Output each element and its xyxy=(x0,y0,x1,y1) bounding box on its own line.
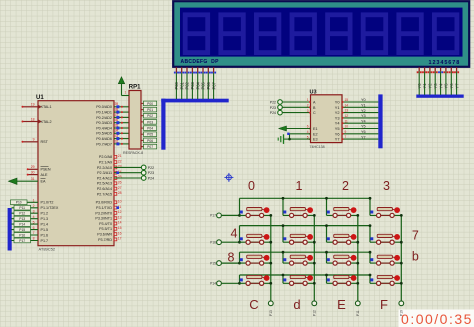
svg-text:2: 2 xyxy=(307,104,309,108)
svg-text:P0.1/AD1: P0.1/AD1 xyxy=(96,111,112,115)
svg-text:0:00/0:35: 0:00/0:35 xyxy=(401,311,473,327)
svg-text:3: 3 xyxy=(383,179,390,193)
svg-text:P02: P02 xyxy=(147,114,153,118)
svg-text:P05: P05 xyxy=(147,133,153,137)
svg-text:P0.3/AD3: P0.3/AD3 xyxy=(96,121,112,125)
svg-text:23: 23 xyxy=(118,165,122,169)
svg-text:P02: P02 xyxy=(185,81,190,89)
svg-text:P23: P23 xyxy=(148,171,154,175)
svg-text:30: 30 xyxy=(31,170,35,174)
svg-text:RP1: RP1 xyxy=(129,84,141,90)
svg-text:P17: P17 xyxy=(19,239,25,243)
svg-text:P3.2/INT0: P3.2/INT0 xyxy=(95,211,112,215)
svg-text:P24: P24 xyxy=(148,177,154,181)
svg-text:P07: P07 xyxy=(211,81,216,89)
svg-text:P0.2/AD2: P0.2/AD2 xyxy=(96,116,112,120)
svg-text:Y4: Y4 xyxy=(335,121,341,126)
svg-text:18: 18 xyxy=(31,117,35,121)
svg-text:1: 1 xyxy=(307,98,309,102)
svg-text:P3.0/RXD: P3.0/RXD xyxy=(96,201,113,205)
svg-text:17: 17 xyxy=(118,237,122,241)
svg-text:E2: E2 xyxy=(313,132,318,136)
svg-text:39: 39 xyxy=(115,102,119,106)
svg-text:P3.6/WR: P3.6/WR xyxy=(97,233,112,237)
svg-text:P06: P06 xyxy=(147,139,153,143)
svg-text:6: 6 xyxy=(33,226,35,230)
svg-text:7: 7 xyxy=(33,231,35,235)
svg-text:ALE: ALE xyxy=(41,173,49,177)
svg-text:C: C xyxy=(249,297,258,312)
svg-text:Y6: Y6 xyxy=(335,131,340,136)
svg-text:32: 32 xyxy=(115,139,119,143)
svg-text:Y6: Y6 xyxy=(361,130,366,134)
svg-text:35: 35 xyxy=(115,123,119,127)
svg-text:P12: P12 xyxy=(312,310,316,316)
svg-text:9: 9 xyxy=(33,138,35,142)
svg-text:8: 8 xyxy=(33,237,35,241)
svg-text:P3.5/T1: P3.5/T1 xyxy=(99,227,112,231)
svg-text:P2.6/A14: P2.6/A14 xyxy=(97,187,112,191)
svg-text:11: 11 xyxy=(345,119,349,123)
svg-text:Y5: Y5 xyxy=(335,126,340,131)
svg-text:P06: P06 xyxy=(206,81,211,89)
svg-text:Y1: Y1 xyxy=(335,105,340,110)
svg-text:38: 38 xyxy=(115,108,119,112)
svg-text:37: 37 xyxy=(115,113,119,117)
svg-text:ABCDEFG DP: ABCDEFG DP xyxy=(181,59,220,65)
svg-text:P0.4/AD4: P0.4/AD4 xyxy=(96,126,112,130)
svg-text:12345678: 12345678 xyxy=(429,60,461,66)
svg-text:8: 8 xyxy=(228,251,235,265)
svg-text:P23: P23 xyxy=(270,106,276,110)
svg-text:C: C xyxy=(313,111,316,115)
svg-text:P0.6/AD6: P0.6/AD6 xyxy=(96,137,112,141)
svg-text:E: E xyxy=(337,297,346,312)
svg-text:P3.7/RD: P3.7/RD xyxy=(98,238,112,242)
svg-text:28: 28 xyxy=(118,191,122,195)
svg-text:P2.2/A10: P2.2/A10 xyxy=(97,166,112,170)
svg-text:Y2: Y2 xyxy=(361,109,366,113)
svg-text:P03: P03 xyxy=(147,120,153,124)
svg-text:P01: P01 xyxy=(147,108,153,112)
svg-text:3: 3 xyxy=(307,109,309,113)
svg-text:P04: P04 xyxy=(147,127,153,131)
svg-text:15: 15 xyxy=(118,226,122,230)
svg-text:P17: P17 xyxy=(210,214,216,218)
svg-text:Y3: Y3 xyxy=(361,114,366,118)
svg-text:P10: P10 xyxy=(16,201,22,205)
svg-text:1: 1 xyxy=(296,179,303,193)
svg-text:P3.4/T0: P3.4/T0 xyxy=(99,222,112,226)
svg-text:P1.0/T2: P1.0/T2 xyxy=(41,201,54,205)
svg-text:P2.0/A8: P2.0/A8 xyxy=(99,155,112,159)
svg-text:3: 3 xyxy=(33,209,35,213)
svg-text:5: 5 xyxy=(33,220,35,224)
svg-text:74HC138: 74HC138 xyxy=(310,145,325,149)
svg-text:P15: P15 xyxy=(210,261,216,265)
svg-text:P14: P14 xyxy=(19,223,25,227)
svg-text:Y5: Y5 xyxy=(444,83,449,89)
svg-text:P2.7/A15: P2.7/A15 xyxy=(97,192,112,196)
svg-text:P16: P16 xyxy=(210,241,216,245)
svg-text:P16: P16 xyxy=(19,233,25,237)
svg-text:P1.4: P1.4 xyxy=(41,223,49,227)
svg-text:P24: P24 xyxy=(270,111,276,115)
svg-text:EA: EA xyxy=(41,180,46,184)
svg-text:P12: P12 xyxy=(19,212,25,216)
svg-text:2: 2 xyxy=(342,179,349,193)
svg-text:10: 10 xyxy=(118,200,122,204)
svg-text:22: 22 xyxy=(118,159,122,163)
svg-text:Y3: Y3 xyxy=(335,115,340,120)
svg-text:29: 29 xyxy=(31,165,35,169)
svg-text:7: 7 xyxy=(345,135,347,139)
svg-text:26: 26 xyxy=(118,181,122,185)
svg-text:16: 16 xyxy=(118,231,122,235)
svg-text:P0.5/AD5: P0.5/AD5 xyxy=(96,132,112,136)
svg-text:34: 34 xyxy=(115,129,119,133)
svg-text:12: 12 xyxy=(118,210,122,214)
svg-text:Y7: Y7 xyxy=(335,137,340,142)
svg-text:P2.5/A13: P2.5/A13 xyxy=(97,182,112,186)
svg-text:P0.7/AD7: P0.7/AD7 xyxy=(96,142,112,146)
svg-text:d: d xyxy=(293,297,300,312)
svg-text:P2.4/A12: P2.4/A12 xyxy=(97,176,112,180)
svg-text:P13: P13 xyxy=(269,310,273,316)
svg-text:P3.1/TXD: P3.1/TXD xyxy=(96,206,112,210)
svg-text:XTAL1: XTAL1 xyxy=(41,105,52,109)
svg-text:Y4: Y4 xyxy=(438,83,443,89)
svg-text:P1.1/T2EX: P1.1/T2EX xyxy=(41,206,59,210)
svg-text:Y7: Y7 xyxy=(454,83,459,89)
svg-text:P1.3: P1.3 xyxy=(41,217,49,221)
svg-text:21: 21 xyxy=(118,154,122,158)
svg-text:36: 36 xyxy=(115,118,119,122)
svg-text:P07: P07 xyxy=(147,145,153,149)
svg-text:XTAL2: XTAL2 xyxy=(41,120,52,124)
svg-text:14: 14 xyxy=(118,221,122,225)
svg-text:9: 9 xyxy=(345,130,347,134)
svg-text:E3: E3 xyxy=(313,138,318,142)
svg-text:AT89C52: AT89C52 xyxy=(39,247,56,252)
svg-text:33: 33 xyxy=(115,134,119,138)
svg-text:F: F xyxy=(380,297,388,312)
svg-text:Y5: Y5 xyxy=(361,125,366,129)
svg-text:P2.1/A9: P2.1/A9 xyxy=(99,161,112,165)
svg-text:12: 12 xyxy=(345,114,349,118)
svg-text:E1: E1 xyxy=(313,127,318,131)
svg-text:1: 1 xyxy=(125,91,127,95)
svg-text:Y0: Y0 xyxy=(361,98,366,102)
svg-text:Y0: Y0 xyxy=(417,83,422,89)
svg-text:P04: P04 xyxy=(195,81,200,89)
svg-text:P03: P03 xyxy=(190,81,195,89)
svg-text:13: 13 xyxy=(118,215,122,219)
svg-text:25: 25 xyxy=(118,175,122,179)
svg-text:Y2: Y2 xyxy=(335,110,340,115)
svg-text:P3.3/INT1: P3.3/INT1 xyxy=(95,217,112,221)
svg-text:P14: P14 xyxy=(210,282,216,286)
svg-text:Y0: Y0 xyxy=(335,100,341,105)
svg-text:4: 4 xyxy=(231,227,238,241)
svg-text:13: 13 xyxy=(345,109,349,113)
svg-text:P1.5: P1.5 xyxy=(41,228,49,232)
svg-text:P2.3/A11: P2.3/A11 xyxy=(97,171,112,175)
svg-text:31: 31 xyxy=(31,177,35,181)
svg-text:Y7: Y7 xyxy=(361,135,366,139)
svg-text:Y4: Y4 xyxy=(361,119,366,123)
svg-text:P1.6: P1.6 xyxy=(41,233,49,237)
svg-text:PSEN: PSEN xyxy=(41,168,51,172)
svg-text:Y3: Y3 xyxy=(433,83,438,89)
svg-text:Y1: Y1 xyxy=(361,104,366,108)
svg-text:P11: P11 xyxy=(19,206,25,210)
svg-text:19: 19 xyxy=(31,103,35,107)
svg-text:P22: P22 xyxy=(270,101,276,105)
svg-text:P1.7: P1.7 xyxy=(41,239,49,243)
svg-text:RESPACK-8: RESPACK-8 xyxy=(123,151,143,155)
svg-text:15: 15 xyxy=(345,98,349,102)
svg-text:P11: P11 xyxy=(356,310,360,316)
svg-text:P01: P01 xyxy=(179,81,184,89)
svg-text:Y1: Y1 xyxy=(422,83,427,89)
svg-text:Y6: Y6 xyxy=(449,83,454,89)
svg-text:27: 27 xyxy=(118,186,122,190)
svg-text:RST: RST xyxy=(41,140,49,144)
svg-text:P0.0/AD0: P0.0/AD0 xyxy=(96,105,112,109)
svg-text:Y2: Y2 xyxy=(428,83,433,89)
svg-text:P05: P05 xyxy=(201,81,206,89)
svg-text:P13: P13 xyxy=(19,217,25,221)
svg-text:0: 0 xyxy=(248,179,255,193)
svg-text:P22: P22 xyxy=(148,166,154,170)
svg-text:P15: P15 xyxy=(19,228,25,232)
svg-text:14: 14 xyxy=(345,103,349,107)
svg-text:b: b xyxy=(412,250,419,264)
svg-text:P00: P00 xyxy=(147,102,153,106)
svg-text:10: 10 xyxy=(345,125,349,129)
svg-text:P1.2: P1.2 xyxy=(41,212,49,216)
svg-text:P00: P00 xyxy=(174,81,179,89)
svg-text:4: 4 xyxy=(33,215,35,219)
svg-text:7: 7 xyxy=(412,229,419,243)
svg-text:1: 1 xyxy=(33,199,35,203)
svg-text:2: 2 xyxy=(33,204,35,208)
svg-text:U1: U1 xyxy=(36,95,44,101)
